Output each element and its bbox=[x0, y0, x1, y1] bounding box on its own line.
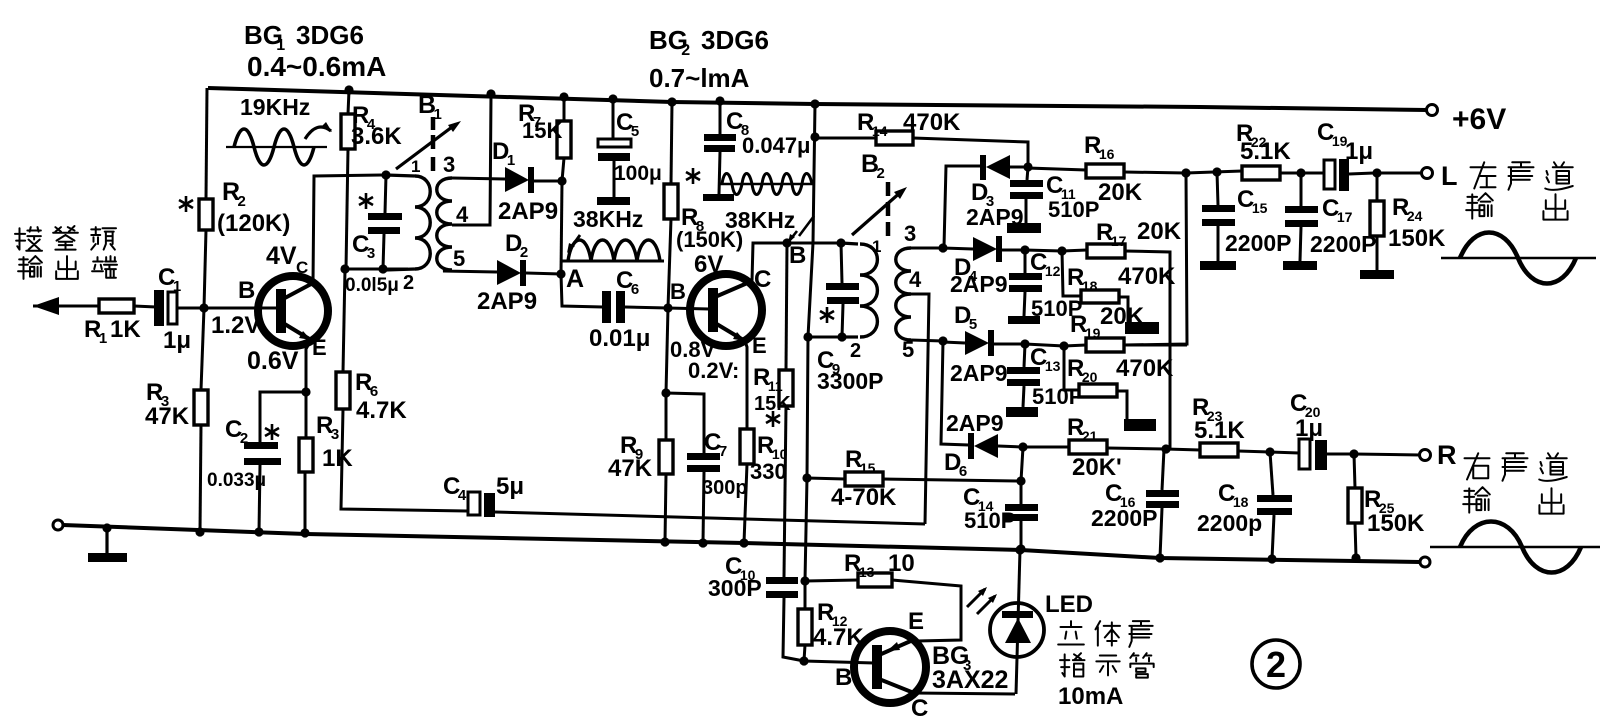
label C4 bbox=[443, 473, 524, 504]
label BG3 bbox=[932, 642, 1008, 694]
wire tap4 B1 bbox=[452, 95, 491, 225]
asterisk R2 bbox=[179, 196, 193, 212]
label C6 bbox=[616, 267, 639, 298]
node R3 gnd bbox=[195, 527, 204, 536]
svg-text:21: 21 bbox=[1082, 428, 1098, 444]
svg-text:20K: 20K bbox=[1100, 303, 1145, 330]
diode D3 bbox=[980, 155, 1028, 180]
node C13 top bbox=[1020, 339, 1029, 348]
node R7 rail bbox=[559, 92, 568, 101]
svg-text:3300P: 3300P bbox=[817, 368, 884, 394]
node R15 left bbox=[802, 473, 811, 482]
label BG2 0.8V bbox=[670, 337, 716, 362]
asterisk C9 bbox=[820, 307, 834, 323]
capacitor C9 bbox=[826, 243, 859, 337]
node input bbox=[199, 303, 208, 312]
diode D6 bbox=[968, 433, 1023, 459]
label R15 bbox=[831, 446, 897, 511]
label C2 bbox=[207, 416, 266, 491]
svg-text:20: 20 bbox=[1082, 369, 1098, 385]
node L sum bbox=[1181, 168, 1190, 177]
node D1 out bbox=[557, 176, 566, 185]
label BG2 3DG6 bbox=[649, 25, 769, 59]
arrow B1 bbox=[396, 121, 461, 169]
node B2 prim top bbox=[836, 238, 845, 247]
svg-text:5: 5 bbox=[453, 246, 465, 271]
svg-text:E: E bbox=[752, 333, 767, 358]
wire L riser bbox=[1124, 173, 1187, 345]
svg-text:3DG6: 3DG6 bbox=[701, 25, 769, 55]
label BG2 C bbox=[754, 266, 771, 293]
label R2 bbox=[217, 178, 290, 237]
svg-text:5.1K: 5.1K bbox=[1240, 138, 1291, 165]
svg-text:18: 18 bbox=[1082, 278, 1098, 294]
svg-text:2: 2 bbox=[238, 193, 246, 210]
wire tap3 B1 bbox=[452, 178, 505, 179]
label C16 bbox=[1091, 480, 1158, 531]
node R24 top bbox=[1372, 168, 1381, 177]
label C10 bbox=[708, 553, 762, 601]
wire base down bbox=[666, 308, 668, 393]
label R11 bbox=[753, 364, 791, 415]
svg-text:510P: 510P bbox=[1032, 384, 1083, 409]
svg-text:47K: 47K bbox=[145, 403, 190, 430]
capacitor C14 bbox=[1005, 504, 1038, 549]
label R13 bbox=[844, 550, 915, 580]
svg-text:R: R bbox=[1437, 440, 1457, 470]
label R21 bbox=[1067, 414, 1122, 481]
capacitor C17 bbox=[1283, 173, 1318, 270]
svg-text:38KHz: 38KHz bbox=[573, 206, 643, 232]
label 38KHz right bbox=[725, 207, 814, 243]
svg-text:100μ: 100μ bbox=[614, 162, 662, 185]
svg-text:0.2V:: 0.2V: bbox=[688, 358, 739, 383]
wire D3 cathode bbox=[944, 166, 981, 247]
node C14 gnd bbox=[1016, 544, 1025, 553]
svg-text:LED: LED bbox=[1045, 591, 1093, 618]
node r14tap bbox=[810, 99, 819, 108]
capacitor C20 bbox=[1270, 439, 1354, 470]
label R6 bbox=[355, 369, 407, 424]
wire row269 bbox=[345, 268, 408, 271]
label C6 val bbox=[589, 325, 650, 352]
resistor R11 bbox=[779, 243, 793, 577]
svg-text:3: 3 bbox=[367, 245, 375, 262]
label left channel bbox=[1466, 162, 1573, 219]
label R3 47K bbox=[145, 379, 190, 430]
node R3b gnd bbox=[300, 528, 309, 537]
resistor R14 bbox=[815, 131, 1028, 167]
waveform L out bbox=[1441, 233, 1596, 284]
resistor R3 47K bbox=[194, 308, 208, 532]
svg-text:1: 1 bbox=[872, 237, 881, 256]
svg-text:0.033μ: 0.033μ bbox=[207, 470, 266, 491]
node C8 rail bbox=[715, 96, 724, 105]
svg-text:330: 330 bbox=[750, 459, 787, 484]
label LED cn bbox=[1058, 621, 1154, 678]
label BG1 0.6V bbox=[247, 347, 299, 375]
node B2base bbox=[663, 303, 672, 312]
node A bbox=[556, 269, 565, 278]
svg-text:2200P: 2200P bbox=[1310, 231, 1377, 257]
label C15 bbox=[1225, 186, 1292, 256]
svg-text:24: 24 bbox=[1407, 208, 1423, 224]
wire +6Vdrop2 bbox=[805, 337, 808, 581]
svg-text:2: 2 bbox=[877, 165, 885, 182]
waveform 38KHz left bbox=[562, 235, 664, 261]
resistor R1 bbox=[99, 299, 156, 313]
svg-text:2: 2 bbox=[520, 244, 528, 261]
svg-text:0.047μ: 0.047μ bbox=[742, 133, 811, 158]
svg-text:2: 2 bbox=[1266, 644, 1286, 685]
node R4 top bbox=[344, 85, 353, 94]
node B bbox=[782, 238, 791, 247]
svg-text:510P: 510P bbox=[1048, 197, 1099, 222]
asterisk C3 bbox=[359, 193, 373, 209]
resistor R22 bbox=[1242, 166, 1324, 180]
svg-text:1: 1 bbox=[99, 330, 107, 347]
wire L row bbox=[1186, 171, 1242, 173]
resistor R7 bbox=[557, 97, 571, 181]
svg-text:0.4~0.6mA: 0.4~0.6mA bbox=[247, 51, 386, 82]
label D2 bbox=[505, 230, 528, 261]
wire D5 row bbox=[1025, 344, 1064, 346]
capacitor C12 bbox=[1008, 250, 1042, 324]
svg-text:2AP9: 2AP9 bbox=[477, 288, 537, 315]
wire tap5 B1 bbox=[443, 270, 497, 272]
svg-text:20K: 20K bbox=[1098, 179, 1143, 206]
diode D4 bbox=[973, 236, 1025, 262]
node tap4 rail bbox=[486, 89, 495, 98]
asterisk R8 bbox=[686, 168, 700, 184]
node R25 top bbox=[1349, 449, 1358, 458]
label C5 bbox=[614, 109, 662, 185]
node BG3 base bbox=[799, 656, 808, 665]
terminal ground left bbox=[53, 520, 63, 530]
label R24 bbox=[1388, 194, 1446, 252]
svg-text:5μ: 5μ bbox=[496, 473, 524, 500]
node tap5 bbox=[938, 336, 947, 345]
capacitor C3 bbox=[368, 175, 402, 269]
svg-text:5.1K: 5.1K bbox=[1194, 417, 1245, 444]
label B2 pin2 bbox=[850, 340, 861, 362]
transistor BG3 bbox=[854, 631, 926, 703]
label C7 bbox=[702, 429, 748, 499]
waveform 19KHz bbox=[226, 122, 332, 165]
capacitor C19 bbox=[1324, 159, 1374, 191]
svg-text:1.2V: 1.2V bbox=[211, 312, 260, 339]
label R14 bbox=[857, 109, 961, 139]
wire D4 row bbox=[1025, 250, 1062, 251]
transistor BG2 bbox=[690, 274, 762, 346]
label BG1 4V C bbox=[266, 242, 308, 277]
resistor R15 bbox=[807, 472, 1021, 486]
label B2 pin5 bbox=[902, 337, 914, 362]
core B1 bbox=[431, 117, 436, 171]
label BG2 0.2V bbox=[688, 358, 739, 383]
resistor R17 bbox=[1062, 244, 1170, 448]
resistor R9 bbox=[659, 393, 673, 542]
node C7 gnd bbox=[698, 538, 707, 547]
label C12 bbox=[1030, 249, 1082, 321]
label D6 2AP9 bbox=[946, 410, 1004, 436]
label BG3 C bbox=[911, 695, 928, 722]
node R20 tap bbox=[1059, 341, 1068, 350]
svg-text:0.0l5μ: 0.0l5μ bbox=[345, 275, 399, 296]
svg-text:1: 1 bbox=[507, 152, 515, 169]
resistor R19 bbox=[1064, 338, 1187, 352]
label B2 bbox=[861, 150, 885, 182]
svg-text:4: 4 bbox=[456, 202, 469, 227]
capacitor C10 bbox=[766, 577, 804, 661]
svg-text:1: 1 bbox=[411, 157, 420, 176]
svg-text:19: 19 bbox=[1085, 325, 1101, 341]
node D6 out bbox=[1018, 442, 1027, 451]
svg-text:3: 3 bbox=[443, 152, 455, 177]
svg-text:16: 16 bbox=[1099, 146, 1115, 162]
wire B2 bottom row bbox=[808, 336, 842, 339]
node E1 bbox=[301, 387, 310, 396]
label BG2 B bbox=[670, 279, 686, 304]
label D1 2AP9 bbox=[498, 198, 558, 225]
node C12 top bbox=[1020, 245, 1029, 254]
capacitor C15 bbox=[1200, 172, 1236, 270]
label B2 pin4 bbox=[909, 267, 922, 292]
svg-text:14: 14 bbox=[872, 123, 888, 139]
label R10 bbox=[750, 432, 788, 484]
label R9 bbox=[608, 432, 653, 482]
terminal R bbox=[1420, 450, 1431, 461]
label D3 bbox=[966, 179, 1024, 230]
svg-text:4-70K: 4-70K bbox=[831, 484, 897, 511]
wire BG3 base bbox=[804, 661, 874, 663]
wire tap5-D6 bbox=[941, 341, 969, 445]
resistor R20 bbox=[1064, 346, 1156, 431]
resistor R25 bbox=[1348, 454, 1362, 557]
label C18 bbox=[1197, 480, 1262, 536]
svg-text:2: 2 bbox=[850, 340, 861, 362]
terminal L bbox=[1422, 168, 1433, 179]
svg-text:2AP9: 2AP9 bbox=[498, 198, 558, 225]
label C17 bbox=[1310, 195, 1377, 257]
svg-text:10: 10 bbox=[888, 550, 915, 577]
transistor BG1 bbox=[258, 276, 328, 346]
node C18 gnd bbox=[1267, 554, 1276, 563]
svg-text:150K: 150K bbox=[1367, 510, 1425, 537]
label +6V bbox=[1452, 103, 1506, 136]
svg-text:C: C bbox=[754, 266, 771, 293]
svg-text:6: 6 bbox=[631, 281, 639, 298]
svg-text:1μ: 1μ bbox=[1345, 138, 1373, 165]
terminal ground right bbox=[1420, 557, 1430, 567]
resistor R21 bbox=[1023, 440, 1166, 454]
label B2 pin1 bbox=[872, 237, 881, 256]
svg-text:510P: 510P bbox=[964, 508, 1015, 533]
arrow B2 bbox=[852, 187, 907, 235]
svg-text:7: 7 bbox=[719, 443, 727, 460]
wire D1-A bbox=[561, 181, 562, 274]
resistor R23 bbox=[1166, 443, 1270, 457]
svg-text:18: 18 bbox=[1233, 494, 1249, 510]
asterisk C2 bbox=[265, 424, 279, 440]
label C9 bbox=[817, 347, 884, 394]
transformer B1 primary bbox=[385, 175, 430, 270]
label R3 1K bbox=[316, 412, 353, 472]
label R18 bbox=[1067, 263, 1176, 294]
wire tap5-D5 bbox=[943, 342, 965, 343]
label C3 bbox=[352, 231, 375, 262]
core B2 bbox=[886, 182, 891, 236]
label R16 bbox=[1084, 132, 1143, 206]
node C18 top bbox=[1265, 447, 1274, 456]
label B1 bbox=[418, 91, 442, 123]
label BG1 B bbox=[238, 277, 255, 304]
resistor R10 bbox=[740, 341, 754, 543]
label D6 bbox=[944, 449, 967, 480]
terminal +6V bbox=[1427, 105, 1438, 116]
label R7 bbox=[518, 100, 562, 143]
svg-text:1μ: 1μ bbox=[163, 327, 191, 354]
wire B2 tap5 bbox=[911, 340, 943, 341]
svg-text:A: A bbox=[566, 265, 584, 293]
svg-text:4.7K: 4.7K bbox=[356, 397, 407, 424]
node C3 bottom bbox=[378, 264, 387, 273]
node R10 gnd bbox=[739, 538, 748, 547]
node C15 top bbox=[1212, 167, 1221, 176]
node R9 top bbox=[661, 388, 670, 397]
wire L out bbox=[1377, 172, 1421, 175]
svg-text:4: 4 bbox=[909, 267, 922, 292]
label C8 bbox=[726, 108, 811, 158]
node C16 gnd bbox=[1155, 553, 1164, 562]
svg-text:0.6V: 0.6V bbox=[247, 347, 299, 375]
svg-text:3.6K: 3.6K bbox=[351, 123, 402, 150]
label C13 bbox=[1030, 344, 1083, 409]
svg-text:19KHz: 19KHz bbox=[240, 94, 310, 120]
diode D5 bbox=[965, 330, 1025, 356]
svg-text:17: 17 bbox=[1337, 209, 1353, 225]
diode D2 bbox=[497, 260, 561, 286]
node B2 prim bottom bbox=[803, 332, 812, 341]
input arrow bbox=[33, 297, 99, 315]
label R25 bbox=[1364, 486, 1425, 537]
svg-text:3DG6: 3DG6 bbox=[296, 20, 364, 50]
label 19KHz bbox=[240, 94, 310, 120]
resistor R8 bbox=[664, 102, 678, 308]
svg-text:10mA: 10mA bbox=[1058, 683, 1123, 710]
wire BG1 emitter bbox=[306, 340, 311, 392]
svg-text:E: E bbox=[908, 608, 924, 635]
svg-text:2AP9: 2AP9 bbox=[950, 360, 1008, 386]
asterisk R10 bbox=[766, 411, 780, 427]
label B1 pin4 bbox=[456, 202, 469, 227]
capacitor C13 bbox=[1006, 344, 1040, 417]
node row269 left bbox=[340, 264, 349, 273]
resistor R24 bbox=[1360, 173, 1394, 279]
svg-text:2: 2 bbox=[240, 430, 248, 447]
svg-text:5: 5 bbox=[631, 123, 639, 140]
node C16 top bbox=[1161, 444, 1170, 453]
svg-text:B: B bbox=[670, 279, 686, 304]
svg-text:B: B bbox=[238, 277, 255, 304]
waveform 38KHz right bbox=[719, 174, 814, 195]
svg-text:20K': 20K' bbox=[1072, 454, 1122, 481]
svg-text:2200P: 2200P bbox=[1091, 505, 1158, 531]
node R14 left bbox=[810, 132, 819, 141]
label input jianpin bbox=[15, 226, 117, 279]
led LED1 bbox=[990, 550, 1044, 694]
label R8 bbox=[676, 204, 743, 278]
label BG3 E bbox=[908, 608, 924, 635]
label R22 bbox=[1236, 120, 1291, 165]
wire +6V rail bbox=[208, 88, 1427, 110]
label BG1 E bbox=[312, 335, 327, 360]
svg-text:470K: 470K bbox=[903, 109, 961, 136]
svg-text:11: 11 bbox=[768, 378, 783, 394]
svg-text:15: 15 bbox=[860, 460, 876, 476]
wire BG2 base bbox=[668, 308, 709, 309]
svg-text:+6V: +6V bbox=[1452, 103, 1506, 136]
resistor R2 bbox=[199, 88, 213, 308]
svg-text:13: 13 bbox=[1045, 358, 1061, 374]
node LED gnd bbox=[1015, 545, 1024, 554]
resistor R6 bbox=[336, 269, 350, 410]
label BG1 3DG6 bbox=[244, 20, 364, 54]
capacitor C7 bbox=[666, 393, 720, 543]
svg-text:(120K): (120K) bbox=[217, 210, 290, 237]
svg-text:4: 4 bbox=[458, 487, 467, 504]
label 0.015u 2 bbox=[345, 272, 414, 296]
svg-text:3: 3 bbox=[331, 426, 339, 443]
label 38KHz left bbox=[573, 206, 643, 232]
resistor R13 bbox=[805, 573, 961, 641]
wire ground rail bbox=[63, 525, 1420, 562]
label R out bbox=[1437, 440, 1457, 470]
svg-text:15: 15 bbox=[1252, 200, 1268, 216]
capacitor C4 bbox=[341, 409, 925, 524]
figure number 2 bbox=[1252, 640, 1300, 688]
label D4 bbox=[950, 254, 1008, 297]
svg-text:L: L bbox=[1441, 161, 1458, 191]
label C14 bbox=[963, 484, 1015, 533]
node R8 rail bbox=[667, 97, 676, 106]
label B1 pin1 bbox=[411, 157, 420, 176]
svg-text:300p: 300p bbox=[702, 477, 748, 499]
resistor R18 bbox=[1062, 251, 1159, 334]
capacitor C11 bbox=[1007, 167, 1043, 233]
svg-text:2: 2 bbox=[681, 42, 690, 59]
svg-text:5: 5 bbox=[969, 316, 977, 333]
svg-text:38KHz: 38KHz bbox=[725, 207, 795, 233]
label BG1 1.2V bbox=[211, 312, 260, 339]
svg-text:20K: 20K bbox=[1137, 218, 1182, 245]
node tap3 bbox=[938, 243, 947, 252]
node R13 left bbox=[800, 576, 809, 585]
svg-text:470K: 470K bbox=[1118, 263, 1176, 290]
label node B bbox=[789, 242, 806, 269]
svg-text:B: B bbox=[789, 242, 806, 269]
node C17 top bbox=[1296, 168, 1305, 177]
node R25 gnd bbox=[1351, 553, 1360, 562]
label C11 bbox=[1046, 172, 1099, 222]
svg-text:C: C bbox=[911, 695, 928, 722]
node C14 mid bbox=[1016, 476, 1025, 485]
wire Bnode bbox=[752, 243, 841, 281]
node R18 tap bbox=[1057, 246, 1066, 255]
label R4 bbox=[351, 102, 402, 150]
label L out bbox=[1441, 161, 1458, 191]
svg-text:3: 3 bbox=[904, 221, 916, 246]
